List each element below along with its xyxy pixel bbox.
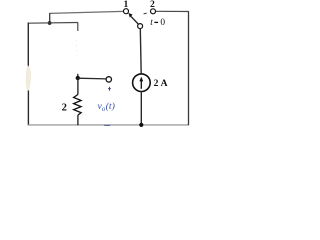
current source arrow shaft: [140, 80, 142, 89]
wire junction to v_o terminal: [78, 77, 106, 80]
svg-text:0: 0: [160, 18, 165, 28]
label + (blue): [108, 87, 111, 91]
wire current source to bottom junction: [140, 91, 142, 125]
wire pole to current source: [139, 28, 142, 74]
wire bottom horizontal: [28, 124, 189, 126]
svg-text:2A: 2A: [154, 78, 168, 89]
wire corner drop into faded segment: [77, 22, 79, 31]
wire junction to resistor: [77, 78, 79, 95]
switch position 1 terminal: [124, 9, 129, 14]
switch dash toward position 2: [144, 12, 147, 15]
wire resistor branch upper: [77, 74, 79, 79]
wire switch pos 2 to right corner: [156, 10, 189, 12]
svg-text:t: t: [150, 17, 153, 27]
svg-text:vo(t): vo(t): [98, 101, 115, 113]
inductor L (faded cream print on left branch): [26, 66, 30, 92]
wire faded vertical segment (scan ghost): [75, 40, 78, 58]
switch arm arrowhead: [128, 13, 132, 18]
wire left vertical upper: [27, 23, 29, 67]
resistor top junction dot: [76, 76, 80, 80]
v_o terminal circle: [106, 77, 111, 82]
switch arm: [131, 16, 139, 24]
label - (blue): [104, 124, 110, 126]
switch position 2 terminal: [151, 9, 156, 14]
resistor R (2 ohm) zigzag: [74, 95, 82, 116]
current source I1 circle: [133, 74, 151, 92]
wire upper-left horizontal (left corner to resistor branch): [28, 22, 78, 25]
node A junction dot: [48, 21, 52, 25]
wire right vertical: [188, 11, 190, 125]
svg-text:2: 2: [150, 0, 155, 10]
bottom junction dot: [139, 123, 143, 127]
current source arrowhead: [139, 77, 143, 82]
svg-text:2: 2: [62, 103, 67, 114]
svg-text:1: 1: [124, 0, 129, 10]
switch pole terminal: [138, 24, 143, 29]
wire vertical stub at node A: [49, 13, 51, 23]
wire resistor to bottom: [77, 115, 79, 125]
wire top horizontal (stub junction to switch pos 1): [50, 11, 124, 13]
wire left vertical lower: [27, 91, 29, 126]
